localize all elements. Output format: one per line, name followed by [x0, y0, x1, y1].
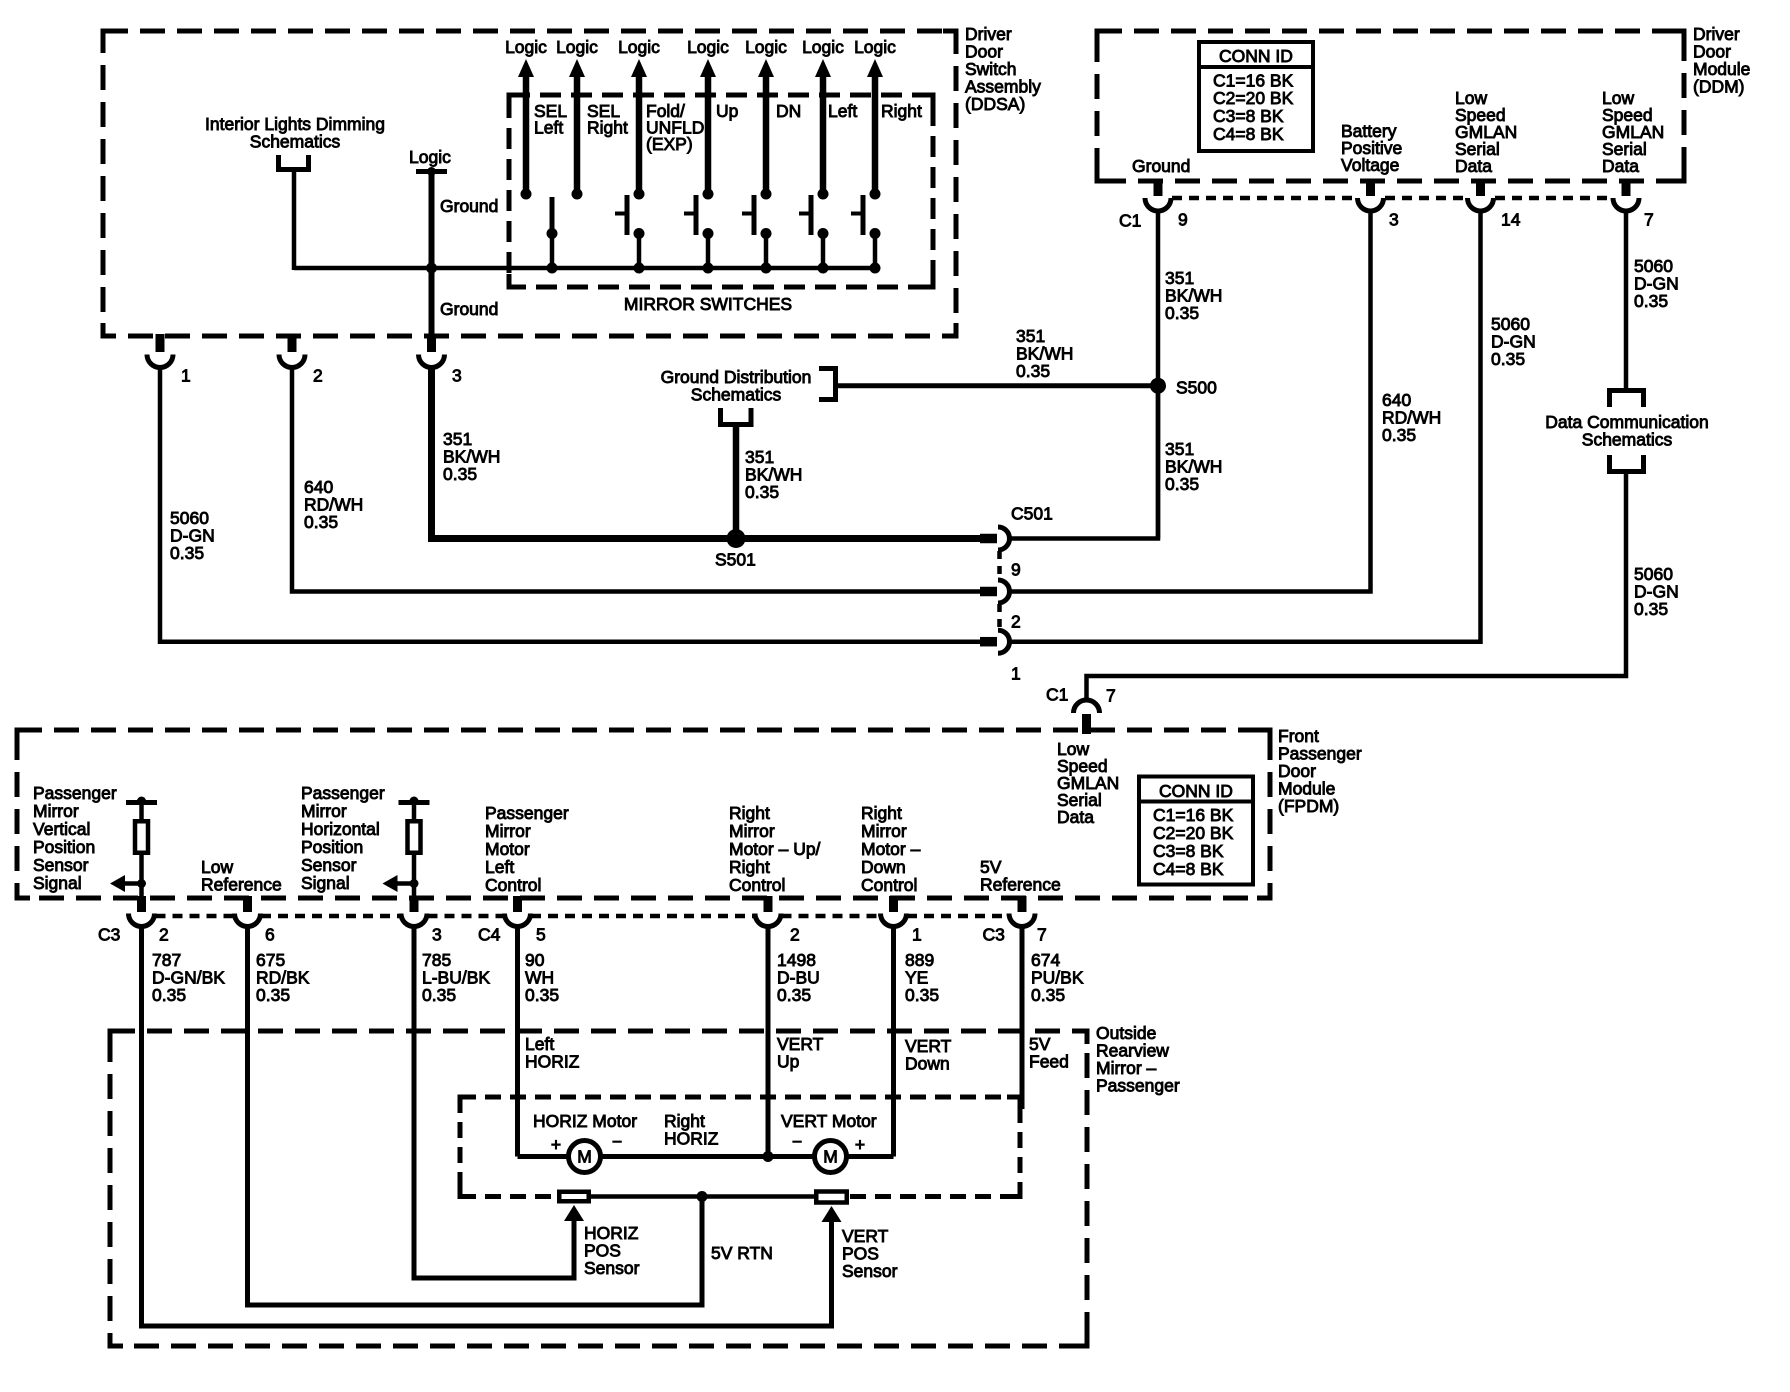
- junction of Up/Right control at motors: [763, 1151, 774, 1162]
- module box: Front Passenger Door Module (FPDM): [17, 730, 1270, 898]
- node switch 2 upper contact: [572, 189, 583, 200]
- svg-text:Passenger: Passenger: [301, 783, 385, 803]
- svg-text:M: M: [823, 1146, 838, 1166]
- svg-text:3: 3: [432, 925, 442, 945]
- arrow: horizontal position sensor signal output: [383, 875, 398, 892]
- svg-text:0.35: 0.35: [304, 512, 338, 532]
- svg-text:Passenger: Passenger: [485, 803, 569, 823]
- splice S500: [1150, 378, 1166, 394]
- node switch lower contact (x=708): [703, 228, 714, 239]
- connector C501 body (dashed): [997, 551, 1002, 579]
- wire from Interior Lights Dimming to switch ground bus: [292, 172, 297, 270]
- inner box: mirror motor/sensor assembly (dashed): [460, 1095, 1020, 1100]
- svg-text:Up: Up: [777, 1051, 799, 1071]
- wire switch to ground bus: [764, 234, 769, 269]
- wire circuit 5060 D-GN from DDSA pin 1 to C501 pin 1: [160, 368, 980, 642]
- svg-text:Control: Control: [485, 875, 541, 895]
- wire from Ground Distribution bracket to S500: [838, 383, 1158, 388]
- node switch lower contact (x=766): [761, 228, 772, 239]
- wire ground bus inside DDSA: [294, 266, 875, 271]
- svg-text:Position: Position: [33, 837, 95, 857]
- svg-text:6: 6: [265, 925, 275, 945]
- svg-text:C501: C501: [1011, 504, 1053, 524]
- module box: Driver Door Switch Assembly (DDSA): [103, 31, 956, 336]
- svg-text:M: M: [577, 1146, 592, 1166]
- connector FPDM pin 3: [410, 896, 419, 912]
- svg-text:Left: Left: [534, 117, 563, 137]
- svg-text:2: 2: [790, 925, 800, 945]
- module box: Driver Door Module (DDM): [1097, 31, 1684, 181]
- svg-text:Voltage: Voltage: [1341, 155, 1399, 175]
- wire 5060 D-GN from DDM pin 7: [1624, 212, 1629, 391]
- svg-text:Right: Right: [861, 803, 902, 823]
- svg-text:Motor – Up/: Motor – Up/: [729, 839, 821, 859]
- connector C1 body line (DDM, dotted): [1172, 196, 1356, 201]
- svg-text:Mirror: Mirror: [485, 821, 531, 841]
- switch blade with actuator tick (x=875): [861, 195, 866, 235]
- svg-text:Sensor: Sensor: [842, 1261, 898, 1281]
- svg-text:C4=8 BK: C4=8 BK: [1213, 124, 1284, 144]
- node switch lower contact (x=823): [818, 228, 829, 239]
- svg-text:0.35: 0.35: [422, 985, 456, 1005]
- svg-text:C1: C1: [1119, 211, 1141, 231]
- svg-text:Sensor: Sensor: [301, 855, 357, 875]
- svg-text:−: −: [612, 1132, 622, 1152]
- svg-text:C2=20 BK: C2=20 BK: [1153, 823, 1234, 843]
- svg-text:7: 7: [1037, 925, 1047, 945]
- wiper arrow into HORIZ POS sensor: [564, 1205, 584, 1221]
- svg-text:9: 9: [1011, 560, 1021, 580]
- svg-text:Up: Up: [716, 101, 738, 121]
- svg-text:C3=8 BK: C3=8 BK: [1153, 841, 1224, 861]
- table CONN ID (FPDM): [1139, 777, 1253, 885]
- connector DDSA pin 3: [427, 334, 436, 352]
- svg-text:Left: Left: [828, 101, 857, 121]
- svg-text:0.35: 0.35: [1165, 303, 1199, 323]
- svg-text:Logic: Logic: [618, 37, 660, 57]
- svg-text:C4: C4: [478, 925, 501, 945]
- switch blade with actuator tick (x=823): [809, 195, 814, 235]
- svg-text:(DDM): (DDM): [1693, 76, 1745, 96]
- node switch 5 upper contact: [761, 189, 772, 200]
- svg-text:2: 2: [313, 366, 323, 386]
- svg-text:5V RTN: 5V RTN: [711, 1243, 773, 1263]
- wire C501 pin 2 to DDM pin 3: [1010, 212, 1371, 592]
- switch blade with actuator tick (x=639): [625, 195, 630, 235]
- svg-text:Control: Control: [729, 875, 785, 895]
- wire switch to ground bus: [637, 234, 642, 269]
- wire 785 L-BU/BK: FPDM pin 3 to HORIZ wiper: [414, 927, 574, 1278]
- svg-text:0.35: 0.35: [525, 985, 559, 1005]
- svg-text:0.35: 0.35: [1031, 985, 1065, 1005]
- svg-text:Logic: Logic: [854, 37, 896, 57]
- svg-text:Data: Data: [1455, 156, 1492, 176]
- connector FPDM pin 5: [513, 896, 522, 912]
- module box: Outside Rearview Mirror - Passenger: [110, 1031, 1087, 1346]
- wire 1498 D-BU: FPDM pin 2 to motors junction: [766, 927, 771, 1157]
- svg-text:Data: Data: [1057, 807, 1094, 827]
- wire 675 RD/BK: FPDM pin 6 to 5V RTN: [248, 927, 703, 1305]
- node switch 7 upper contact: [870, 189, 881, 200]
- wire logic output arrow (switch 2): [569, 59, 585, 77]
- connector DDSA pin 2: [288, 334, 297, 352]
- svg-text:−: −: [792, 1132, 802, 1152]
- splice S501: [727, 529, 746, 548]
- svg-text:Mirror: Mirror: [861, 821, 907, 841]
- svg-text:7: 7: [1106, 686, 1116, 706]
- svg-text:VERT Motor: VERT Motor: [781, 1111, 877, 1131]
- wire from Ground Distribution cup down to S501: [733, 427, 740, 539]
- svg-text:5: 5: [536, 925, 546, 945]
- wire logic output arrow (switch 1): [518, 59, 534, 77]
- node switch 3 upper contact: [634, 189, 645, 200]
- connector FPDM pin 1: [889, 896, 898, 912]
- svg-text:0.35: 0.35: [152, 985, 186, 1005]
- connector DDM C1 pin 9: [1154, 179, 1163, 196]
- svg-text:Logic: Logic: [505, 37, 547, 57]
- svg-text:HORIZ: HORIZ: [525, 1051, 580, 1071]
- wire 674 PU/BK: FPDM pin 7 (5V Feed): [1020, 927, 1025, 1109]
- svg-text:Ground: Ground: [440, 196, 498, 216]
- wire circuit 640 RD/WH from DDSA pin 2 to C501 pin 2: [292, 368, 980, 592]
- svg-text:Feed: Feed: [1029, 1051, 1069, 1071]
- node switch lower contact (x=875): [870, 228, 881, 239]
- svg-text:Signal: Signal: [301, 873, 350, 893]
- connector C501 pin 2: [980, 587, 997, 597]
- svg-text:7: 7: [1644, 210, 1654, 230]
- svg-text:Control: Control: [861, 875, 917, 895]
- svg-text:14: 14: [1501, 210, 1521, 230]
- svg-text:0.35: 0.35: [1165, 474, 1199, 494]
- switch blade with actuator tick (x=708): [694, 195, 699, 235]
- svg-text:Mirror: Mirror: [33, 801, 79, 821]
- wire switch to ground bus: [821, 234, 826, 269]
- svg-text:Down: Down: [861, 857, 906, 877]
- svg-text:+: +: [551, 1135, 561, 1155]
- node switch 6 upper contact: [818, 189, 829, 200]
- svg-text:Right: Right: [729, 803, 770, 823]
- switch blade with actuator tick (x=766): [752, 195, 757, 235]
- svg-text:CONN ID: CONN ID: [1159, 781, 1233, 801]
- wire switch to ground bus: [706, 234, 711, 269]
- svg-text:Passenger: Passenger: [1096, 1075, 1180, 1095]
- wire selector common to ground bus: [550, 234, 555, 269]
- svg-text:C4=8 BK: C4=8 BK: [1153, 859, 1224, 879]
- svg-text:Logic: Logic: [745, 37, 787, 57]
- svg-text:9: 9: [1178, 210, 1188, 230]
- svg-text:Mirror: Mirror: [729, 821, 775, 841]
- sensor element: HORIZ POS Sensor track: [559, 1192, 589, 1202]
- sensor symbol: horizontal position sense resistor (in FPDM): [399, 800, 430, 805]
- svg-text:Logic: Logic: [687, 37, 729, 57]
- svg-text:0.35: 0.35: [443, 464, 477, 484]
- svg-text:Right: Right: [587, 117, 628, 137]
- motor M1: HORIZ Motor: [569, 1141, 601, 1173]
- wire circuit 351 BK/WH from DDSA pin 3 to C501 pin 9: [432, 368, 981, 539]
- svg-text:S501: S501: [715, 550, 756, 570]
- svg-text:Reference: Reference: [201, 874, 282, 894]
- junction: Logic wire on ground bus: [426, 263, 437, 274]
- svg-text:Position: Position: [301, 837, 363, 857]
- svg-text:Right: Right: [729, 857, 770, 877]
- svg-text:Signal: Signal: [33, 873, 82, 893]
- svg-text:0.35: 0.35: [1491, 349, 1525, 369]
- svg-text:C1: C1: [1046, 685, 1068, 705]
- svg-text:0.35: 0.35: [1016, 361, 1050, 381]
- svg-text:2: 2: [159, 925, 169, 945]
- sensor element: VERT POS Sensor track: [816, 1192, 847, 1203]
- svg-text:S500: S500: [1176, 378, 1217, 398]
- svg-text:Mirror: Mirror: [301, 801, 347, 821]
- svg-text:3: 3: [452, 366, 462, 386]
- svg-text:1: 1: [912, 925, 922, 945]
- wire ground: Logic tap down to DDSA pin 3: [429, 172, 435, 338]
- wire switch to ground bus: [873, 234, 878, 269]
- connector DDM C1 pin 7: [1622, 179, 1631, 196]
- wire logic output arrow (switch 7): [867, 59, 883, 77]
- module box: MIRROR SWITCHES: [509, 95, 933, 287]
- wire 787 D-GN/BK: FPDM pin 2 to VERT wiper: [142, 927, 832, 1326]
- svg-text:C1=16 BK: C1=16 BK: [1153, 805, 1234, 825]
- node switch 1 upper contact: [521, 189, 532, 200]
- wire C501 pin 1 to DDM pin 14: [1010, 212, 1481, 642]
- connector FPDM C1 pin 7: [1074, 700, 1100, 713]
- connector C501 pin 9: [980, 534, 997, 544]
- svg-text:(DDSA): (DDSA): [965, 94, 1025, 114]
- svg-text:Motor: Motor: [485, 839, 530, 859]
- connector FPDM pin 6: [243, 896, 252, 912]
- svg-text:(EXP): (EXP): [646, 134, 693, 154]
- svg-text:Schematics: Schematics: [691, 384, 782, 404]
- junction 5V RTN: [697, 1191, 708, 1202]
- svg-text:Down: Down: [905, 1053, 950, 1073]
- wire 889 YE: FPDM pin 1 to VERT motor: [891, 927, 896, 1157]
- wire C501 pin 9 to S500 riser: [1010, 380, 1159, 539]
- svg-text:0.35: 0.35: [777, 985, 811, 1005]
- svg-text:3: 3: [1389, 210, 1399, 230]
- off-page symbol: Data Communication Schematics: [1610, 391, 1644, 408]
- svg-text:Schematics: Schematics: [1582, 429, 1673, 449]
- svg-text:CONN ID: CONN ID: [1219, 46, 1293, 66]
- svg-text:C3: C3: [98, 925, 120, 945]
- svg-text:(FPDM): (FPDM): [1278, 796, 1339, 816]
- svg-text:Right: Right: [881, 101, 922, 121]
- svg-text:Logic: Logic: [556, 37, 598, 57]
- wire 90 WH: FPDM pin 5 to HORIZ motor: [515, 927, 520, 1157]
- svg-text:Reference: Reference: [980, 874, 1061, 894]
- svg-text:Sensor: Sensor: [584, 1258, 640, 1278]
- node switch 4 upper contact: [703, 189, 714, 200]
- wire logic output arrow (switch 5): [758, 59, 774, 77]
- svg-text:Data: Data: [1602, 156, 1639, 176]
- svg-text:0.35: 0.35: [1634, 599, 1668, 619]
- connector body line (FPDM bottom, dotted): [156, 914, 235, 919]
- sensor symbol: vertical position sense resistor (in FPDM): [126, 800, 157, 805]
- connector DDM C1 pin 14: [1476, 179, 1485, 196]
- connector DDM C1 pin 3: [1366, 179, 1375, 196]
- svg-text:1: 1: [1011, 664, 1021, 684]
- svg-text:C3: C3: [983, 925, 1005, 945]
- svg-text:Passenger: Passenger: [33, 783, 117, 803]
- connector FPDM pin 2: [764, 896, 773, 912]
- connector DDSA pin 1: [156, 334, 165, 352]
- wire logic output arrow (switch 3): [631, 59, 647, 77]
- node switch lower contact (x=639): [634, 228, 645, 239]
- wire 5V return track between position sensors: [591, 1194, 814, 1199]
- wire ground 351 from DDM pin 9 through S500 to C501: [1156, 212, 1161, 539]
- wiper arrow into VERT POS sensor: [822, 1206, 842, 1222]
- svg-text:Ground: Ground: [1132, 156, 1190, 176]
- connector C501 pin 1: [980, 637, 997, 647]
- svg-text:0.35: 0.35: [256, 985, 290, 1005]
- svg-text:HORIZ: HORIZ: [664, 1128, 719, 1148]
- connector FPDM pin 7: [1018, 896, 1027, 912]
- table CONN ID (DDM): [1199, 42, 1313, 151]
- connector FPDM pin 2: [137, 896, 146, 912]
- switch SEL Left/Right selector blade: [550, 197, 555, 236]
- svg-text:0.35: 0.35: [905, 985, 939, 1005]
- svg-text:Horizontal: Horizontal: [301, 819, 380, 839]
- svg-text:Sensor: Sensor: [33, 855, 89, 875]
- svg-text:HORIZ Motor: HORIZ Motor: [533, 1111, 637, 1131]
- svg-text:Schematics: Schematics: [250, 131, 341, 151]
- svg-text:Motor –: Motor –: [861, 839, 921, 859]
- wire motor supply row: [518, 1154, 894, 1159]
- svg-text:Logic: Logic: [802, 37, 844, 57]
- wire logic output arrow (switch 6): [815, 59, 831, 77]
- svg-text:0.35: 0.35: [1634, 291, 1668, 311]
- svg-text:0.35: 0.35: [170, 543, 204, 563]
- svg-text:2: 2: [1011, 612, 1021, 632]
- svg-text:+: +: [855, 1135, 865, 1155]
- svg-text:MIRROR SWITCHES: MIRROR SWITCHES: [624, 294, 792, 314]
- svg-text:0.35: 0.35: [1382, 425, 1416, 445]
- svg-text:Ground: Ground: [440, 299, 498, 319]
- svg-text:DN: DN: [776, 101, 801, 121]
- svg-text:Vertical: Vertical: [33, 819, 90, 839]
- motor M2: VERT Motor: [815, 1141, 847, 1173]
- svg-text:0.35: 0.35: [745, 482, 779, 502]
- svg-text:Logic: Logic: [409, 147, 451, 167]
- svg-text:Left: Left: [485, 857, 514, 877]
- svg-text:1: 1: [181, 366, 191, 386]
- arrow: vertical position sensor signal output: [110, 875, 125, 892]
- wire logic output arrow (switch 4): [700, 59, 716, 77]
- node selector common contact: [547, 228, 558, 239]
